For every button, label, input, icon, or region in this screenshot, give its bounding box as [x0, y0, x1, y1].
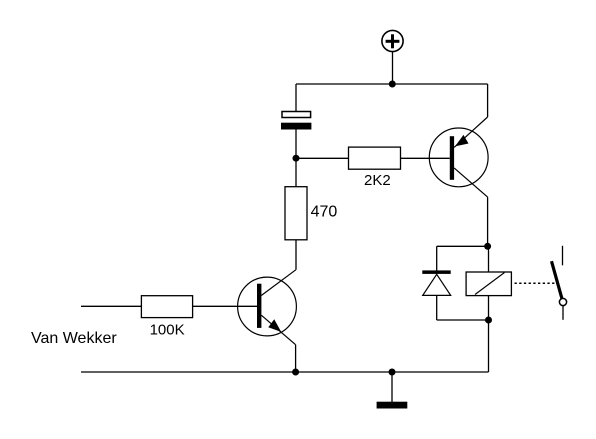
svg-text:470: 470: [311, 204, 338, 221]
svg-text:2K2: 2K2: [364, 172, 391, 189]
svg-text:Van Wekker: Van Wekker: [31, 330, 117, 347]
svg-text:100K: 100K: [150, 321, 185, 338]
